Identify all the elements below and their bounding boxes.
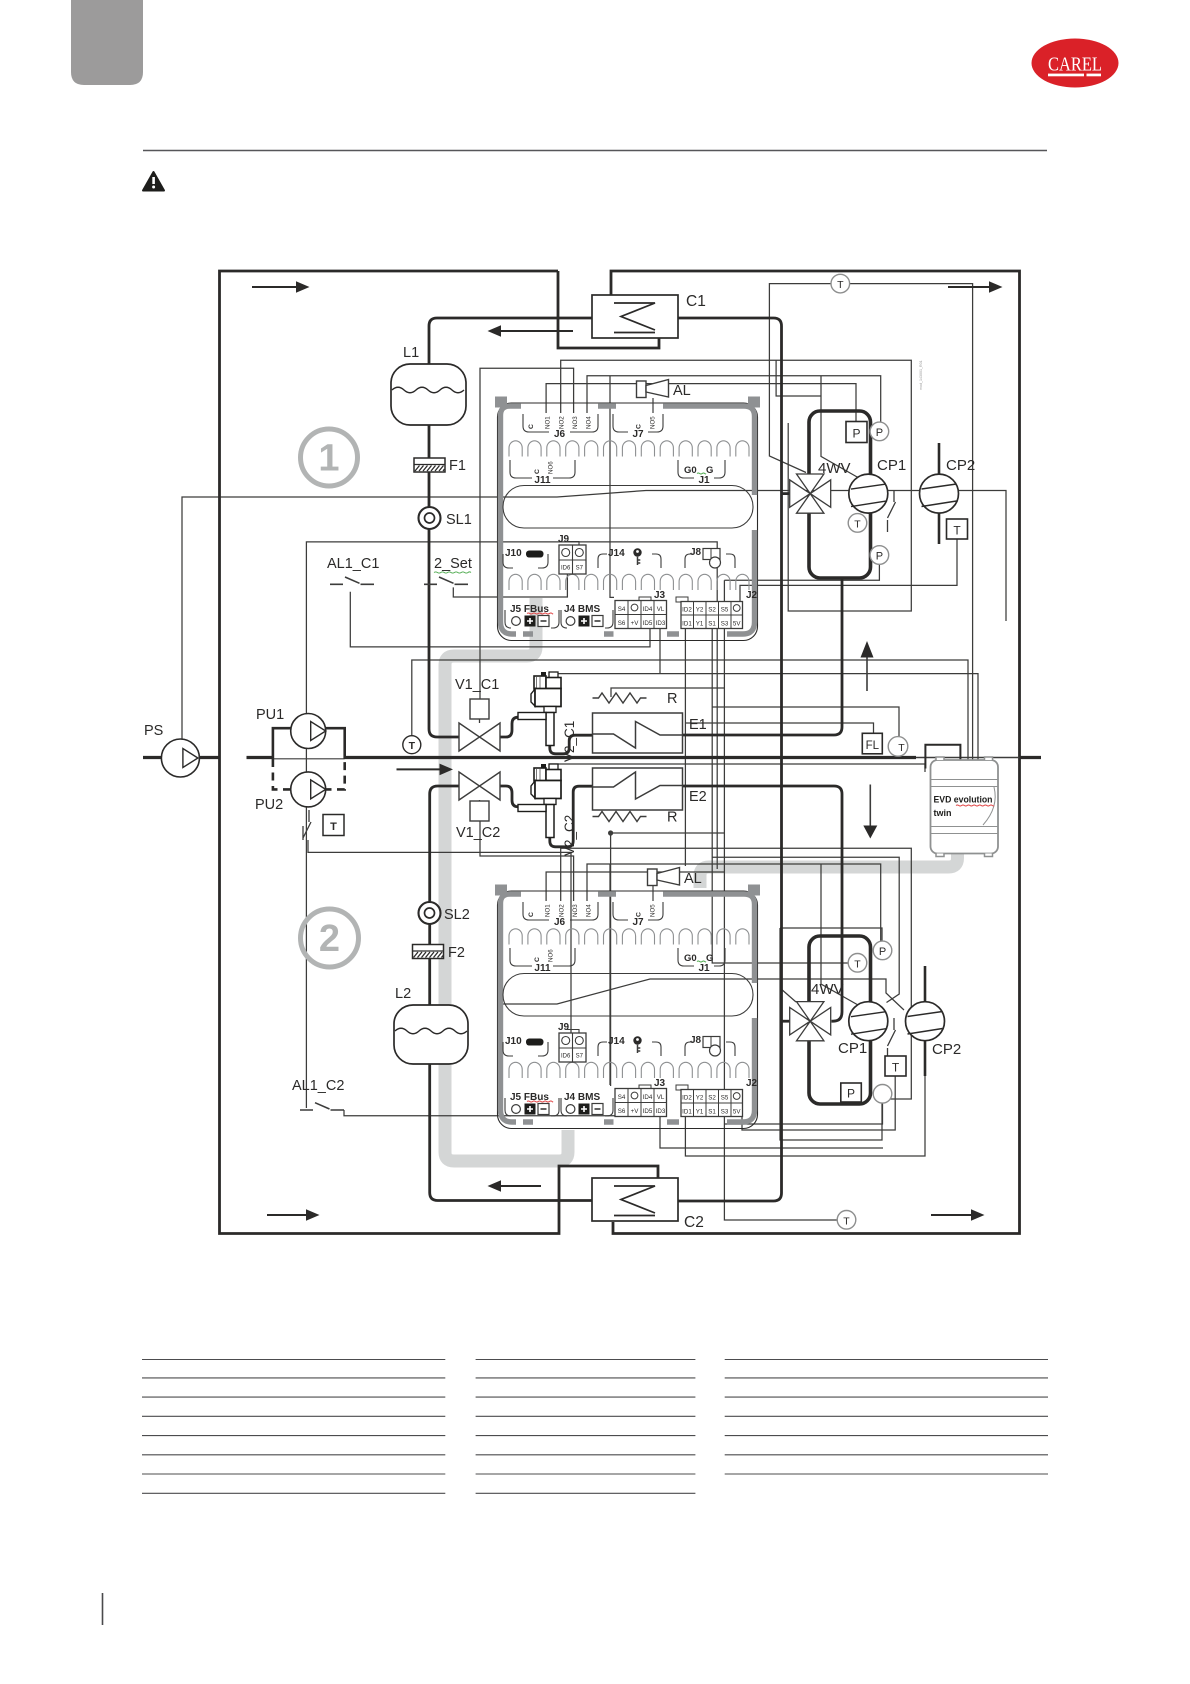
- svg-text:C: C: [528, 424, 535, 429]
- pump bypass standby (dashed): [273, 759, 345, 789]
- valve V1_C1: [459, 723, 500, 751]
- svg-text:T: T: [854, 519, 861, 531]
- svg-text:V2_C1: V2_C1: [562, 721, 577, 762]
- connector J11 board 2: [510, 948, 575, 966]
- flow arrow bottom left: [267, 1214, 306, 1216]
- receiver L2: [394, 1005, 468, 1064]
- wire PS sensor to board 1 / right bus: [182, 491, 1006, 740]
- legend column 1: [142, 1359, 445, 1361]
- heater R circuit 2: [593, 812, 647, 822]
- svg-text:ID5: ID5: [643, 620, 653, 627]
- P low circuit 1: [870, 546, 889, 565]
- T suction circuit 2: [848, 954, 867, 973]
- compressor CP1 circuit 2: [849, 1002, 888, 1041]
- compressor CP2 circuit 2: [924, 966, 927, 1002]
- svg-text:T: T: [330, 821, 337, 833]
- wire relay NO1 circuit 2: [546, 872, 724, 901]
- wire T square 2 to J2 circuit 2: [742, 1076, 895, 1130]
- svg-text:J6: J6: [554, 429, 566, 440]
- connector J1 board 2: [678, 948, 725, 966]
- svg-text:T: T: [854, 958, 861, 970]
- svg-text:P: P: [852, 427, 860, 441]
- V1_C2 solenoid: [479, 800, 481, 803]
- svg-text:NO5: NO5: [650, 904, 657, 917]
- T square circuit 1: [947, 519, 968, 539]
- condenser C1: [592, 295, 678, 338]
- terminal strip upper board 2: [509, 929, 749, 945]
- svg-text:G0: G0: [684, 953, 697, 964]
- pump PU1: [291, 714, 326, 749]
- svg-text:NO5: NO5: [650, 416, 657, 429]
- svg-text:J3: J3: [654, 1078, 666, 1089]
- T square circuit 2: [885, 1056, 906, 1076]
- svg-text:V2_C2: V2_C2: [562, 815, 577, 856]
- wire V2_C2 coil to EVD: [550, 764, 925, 773]
- filter F2: [413, 945, 444, 959]
- filter F1: [414, 458, 445, 472]
- svg-text:G: G: [706, 465, 713, 476]
- wire J2 circuit 2 to CP2: [685, 1073, 925, 1156]
- thermal contact circuit 2: [888, 1018, 896, 1060]
- svg-text:CP2: CP2: [932, 1041, 961, 1058]
- svg-text:Y1: Y1: [696, 621, 704, 628]
- svg-text:+V: +V: [631, 620, 640, 627]
- svg-text:S1: S1: [708, 1109, 716, 1116]
- contact AL1_C2: [300, 1103, 344, 1110]
- svg-text:S4: S4: [618, 606, 626, 613]
- svg-text:ID4: ID4: [643, 1094, 653, 1101]
- svg-text:2: 2: [319, 918, 340, 960]
- warning icon: [143, 172, 164, 191]
- svg-text:NO3: NO3: [572, 416, 579, 429]
- svg-text:J10: J10: [505, 1036, 522, 1047]
- svg-text:S1: S1: [708, 621, 716, 628]
- CAREL logo: [1032, 39, 1119, 88]
- svg-text:ID2: ID2: [682, 1095, 692, 1102]
- pipe tee to 4WV 1: [782, 492, 790, 495]
- terminal strip lower board 1: [509, 574, 749, 590]
- V1_C1 solenoid: [479, 719, 481, 723]
- svg-text:T: T: [898, 742, 905, 754]
- wire P low 2 bus: [724, 1103, 882, 1124]
- wire P low 1 to heater bus: [724, 564, 879, 580]
- wire T square 1 to J2: [740, 539, 957, 602]
- svg-text:L1: L1: [403, 345, 419, 361]
- P switch circuit 2: [841, 1083, 862, 1102]
- P transducer circuit 2: [873, 941, 892, 960]
- controller board 2 outline: [498, 891, 758, 1129]
- svg-text:ID5: ID5: [643, 1108, 653, 1115]
- svg-text:Y2: Y2: [696, 1095, 704, 1102]
- svg-text:J14: J14: [608, 548, 625, 559]
- alarm horn AL board 1: [652, 398, 654, 413]
- connector J6 board 1: [523, 414, 598, 432]
- T sensor water supply: [403, 736, 421, 754]
- svg-text:ID2: ID2: [682, 607, 692, 614]
- legend column 3: [725, 1359, 1048, 1361]
- svg-text:CP2: CP2: [946, 457, 975, 474]
- svg-text:ID4: ID4: [643, 606, 653, 613]
- wire J3 circuit 1 stub: [659, 629, 661, 674]
- svg-text:F2: F2: [448, 945, 465, 961]
- pump PS: [161, 739, 199, 777]
- flow arrow top right: [948, 286, 989, 288]
- P low circuit 2: [873, 1085, 892, 1104]
- display slot board 1: [503, 486, 753, 529]
- svg-text:T: T: [953, 524, 961, 538]
- svg-text:ID6: ID6: [561, 1054, 571, 1060]
- wire relay NO4 to P transducer 2: [587, 864, 881, 941]
- svg-text:T: T: [892, 1061, 900, 1075]
- wire discharge T1 to 4WV: [769, 284, 831, 473]
- T sensor suction: [888, 737, 908, 757]
- svg-text:S5: S5: [721, 607, 729, 614]
- svg-text:NO6: NO6: [548, 949, 555, 962]
- fold mark: [102, 1593, 104, 1625]
- svg-text:4WV: 4WV: [811, 981, 844, 998]
- svg-text:T: T: [843, 1215, 850, 1227]
- valve V1_C2: [459, 772, 500, 800]
- svg-text:ID1: ID1: [682, 1109, 692, 1116]
- svg-text:NO2: NO2: [559, 416, 566, 429]
- contact AL1_C1: [330, 577, 374, 584]
- connector J11 board 1: [510, 460, 575, 478]
- pipe hot gas riser: [678, 318, 782, 1201]
- svg-text:twin: twin: [934, 808, 952, 818]
- flow arrow riser down: [869, 785, 871, 827]
- svg-text:S6: S6: [618, 1108, 626, 1115]
- svg-text:ID3: ID3: [656, 620, 666, 627]
- electronic valve V2_C1: [541, 672, 546, 677]
- svg-text:C: C: [534, 957, 541, 962]
- svg-text:CP1: CP1: [838, 1040, 867, 1057]
- pipe C1 to receiver L1: [429, 318, 592, 364]
- svg-text:V1_C2: V1_C2: [456, 825, 500, 841]
- wire bus stub to CP1: [776, 360, 821, 396]
- pipe liquid line circuit 2: [430, 786, 593, 1201]
- wire relay NO2 loop circuit 2: [561, 848, 912, 1099]
- sight glass SL1: [419, 507, 441, 529]
- svg-text:J8: J8: [690, 547, 702, 558]
- connector J6 board 2: [523, 902, 598, 920]
- svg-text:NO4: NO4: [586, 416, 593, 429]
- svg-text:ID1: ID1: [682, 621, 692, 628]
- 4WV valve circuit 1: [797, 474, 824, 494]
- svg-text:J8: J8: [690, 1035, 702, 1046]
- controller board 2 frame: [501, 894, 755, 1122]
- svg-text:ID6: ID6: [561, 566, 571, 572]
- legend column 2: [476, 1359, 696, 1361]
- wire J2 to FL sensor: [685, 629, 873, 867]
- connector J7 board 1: [613, 414, 663, 432]
- wire supply T sensor to EVD: [412, 660, 968, 760]
- wire bus to CP1 circuit 2: [712, 857, 899, 1002]
- svg-text:NO1: NO1: [545, 416, 552, 429]
- pipe V2_C2 to E2: [550, 786, 594, 847]
- svg-text:P: P: [876, 551, 883, 563]
- wire relay NO3 to V1_C2 solenoid: [480, 821, 574, 901]
- condenser C2: [592, 1178, 678, 1221]
- pipe V2_C1 to E1: [550, 735, 594, 754]
- svg-text:FL: FL: [866, 740, 880, 752]
- svg-text:5V: 5V: [733, 621, 741, 628]
- svg-text:J6: J6: [554, 917, 566, 928]
- wire wire to 4WV circuit 2: [780, 988, 796, 1002]
- compressor CP1 circuit 1: [849, 474, 888, 513]
- svg-text:J2: J2: [746, 1078, 758, 1089]
- svg-text:1: 1: [318, 438, 339, 480]
- main water line: [143, 756, 916, 759]
- circuit number 1: [301, 429, 358, 486]
- wire relay NO3 to V1_C1 solenoid: [480, 368, 574, 699]
- sight glass SL2: [419, 902, 441, 924]
- circuit number 2: [301, 909, 359, 967]
- svg-text:4WV: 4WV: [818, 460, 851, 477]
- wire J3 circuit 2 lower bus: [660, 1117, 883, 1148]
- water loop outer border: [611, 271, 1020, 1234]
- display slot board 2: [503, 974, 753, 1017]
- svg-text:AL: AL: [673, 383, 691, 399]
- svg-text:C2: C2: [684, 1214, 704, 1231]
- wire output to J3 circuit 2: [609, 864, 611, 1085]
- svg-text:R: R: [667, 691, 677, 707]
- wire main line to EVD: [925, 745, 960, 769]
- svg-text:Y2: Y2: [696, 607, 704, 614]
- svg-text:C: C: [534, 469, 541, 474]
- svg-text:P: P: [879, 946, 886, 958]
- controller board 1 frame: [501, 406, 755, 634]
- svg-text:J1: J1: [698, 475, 710, 486]
- wire J2 to suction T sensors: [712, 629, 899, 964]
- svg-text:NO1: NO1: [545, 904, 552, 917]
- flow arrow bottom right: [931, 1214, 971, 1216]
- svg-text:J1: J1: [698, 963, 710, 974]
- pipe E1 suction line: [683, 578, 843, 735]
- svg-text:T: T: [409, 740, 416, 752]
- svg-text:J3: J3: [654, 590, 666, 601]
- svg-text:5V: 5V: [733, 1109, 741, 1116]
- pipe E2 suction line: [683, 786, 843, 1021]
- thermal contact circuit 1: [888, 490, 896, 532]
- svg-text:AL1_C1: AL1_C1: [327, 556, 379, 572]
- connector J1 board 1: [678, 460, 725, 478]
- pipe liquid line circuit 1: [429, 425, 459, 737]
- svg-text:J4 BMS: J4 BMS: [564, 1092, 600, 1103]
- svg-text:J9: J9: [558, 534, 570, 545]
- wire return T contact to board 2: [308, 840, 571, 1035]
- EVD evolution twin module: [931, 760, 999, 854]
- svg-text:EVD evolution: EVD evolution: [934, 795, 993, 805]
- svg-text:VL: VL: [657, 1094, 665, 1101]
- flow arrow into C2: [501, 1185, 541, 1187]
- receiver L1: [391, 364, 466, 425]
- wire relay NO2 loop circuit 1: [561, 360, 912, 611]
- evaporator E1: [593, 713, 683, 753]
- svg-text:PS: PS: [144, 723, 163, 739]
- pump PU2: [291, 772, 326, 807]
- svg-text:NO4: NO4: [586, 904, 593, 917]
- flow arrow riser up: [866, 657, 868, 691]
- FL flow switch: [862, 733, 882, 754]
- junction R2: [608, 830, 613, 835]
- svg-text:S2: S2: [708, 607, 716, 614]
- wire wire to CP1 circuit 2: [821, 864, 858, 1005]
- svg-text:S3: S3: [721, 621, 729, 628]
- svg-text:L2: L2: [395, 986, 411, 1002]
- svg-text:AL: AL: [684, 871, 702, 887]
- svg-text:C: C: [636, 424, 643, 429]
- svg-text:J2: J2: [746, 590, 758, 601]
- evaporator E2: [593, 768, 683, 810]
- svg-text:R: R: [667, 810, 677, 826]
- svg-text:S6: S6: [618, 620, 626, 627]
- svg-text:C: C: [528, 912, 535, 917]
- svg-text:J14: J14: [608, 1036, 625, 1047]
- svg-text:CP1: CP1: [877, 457, 906, 474]
- wire AL1_C2 contact to J3 circuit 2: [344, 1110, 660, 1117]
- compressor CP2 circuit 1: [938, 443, 941, 475]
- P transducer circuit 1: [870, 422, 889, 441]
- 4WV valve circuit 2: [797, 1002, 824, 1022]
- wire discharge T1 to EVD: [850, 284, 973, 760]
- compressor loop circuit 2: [809, 936, 871, 1104]
- svg-text:Y1: Y1: [696, 1109, 704, 1116]
- wire alarm loop between circuits: [306, 542, 717, 1108]
- svg-text:ID3: ID3: [656, 1108, 666, 1115]
- svg-text:S3: S3: [721, 1109, 729, 1116]
- electronic valve V2_C2: [541, 764, 546, 769]
- pump bypass duty: [273, 728, 345, 759]
- controller board 1 outline: [498, 403, 758, 641]
- return water T contact: [303, 810, 311, 840]
- svg-text:+V: +V: [631, 1108, 640, 1115]
- T sensor condenser outlet circuit 2: [837, 1211, 856, 1230]
- svg-text:V1_C1: V1_C1: [455, 677, 499, 693]
- terminal strip upper board 1: [509, 441, 749, 457]
- svg-text:PU2: PU2: [255, 797, 283, 813]
- svg-text:P: P: [847, 1087, 855, 1101]
- wire relay NO4 to P transducer 1: [587, 376, 881, 422]
- svg-text:mod_143001_R01: mod_143001_R01: [919, 360, 923, 390]
- compressor loop circuit 1: [809, 411, 871, 578]
- svg-text:E1: E1: [689, 717, 707, 733]
- wire long bus to C2 temperature sensor: [724, 580, 838, 1220]
- contact 2_Set: [424, 577, 468, 584]
- flow arrow into C1: [501, 330, 573, 332]
- svg-text:F1: F1: [449, 458, 466, 474]
- harness highlight right: [700, 851, 958, 888]
- svg-text:G: G: [706, 953, 713, 964]
- wire V2_C1 coil to EVD: [550, 674, 978, 760]
- heater R circuit 1: [593, 693, 647, 703]
- svg-text:J11: J11: [534, 963, 551, 974]
- svg-text:2_Set: 2_Set: [434, 556, 472, 572]
- pipe tee to 4WV 2: [782, 1020, 790, 1023]
- svg-text:J11: J11: [534, 475, 551, 486]
- svg-text:SL1: SL1: [446, 512, 472, 528]
- svg-text:CAREL: CAREL: [1048, 54, 1102, 76]
- svg-text:E2: E2: [689, 789, 707, 805]
- wire R1 bracket: [611, 688, 725, 697]
- svg-text:S4: S4: [618, 1094, 626, 1101]
- wire bus to CP2 circuit 2: [498, 979, 905, 1010]
- svg-text:S2: S2: [708, 1095, 716, 1102]
- harness highlight left: [445, 598, 568, 1161]
- svg-text:J7: J7: [632, 429, 644, 440]
- svg-text:NO3: NO3: [572, 904, 579, 917]
- header rule: [143, 150, 1047, 152]
- svg-text:VL: VL: [657, 606, 665, 613]
- wire AL1_C1 contact to J3: [350, 592, 650, 647]
- svg-text:SL2: SL2: [444, 907, 470, 923]
- T suction circuit 1: [848, 514, 867, 533]
- svg-text:S5: S5: [721, 1095, 729, 1102]
- svg-text:J4 BMS: J4 BMS: [564, 604, 600, 615]
- P switch circuit 1: [846, 422, 867, 443]
- svg-text:T: T: [837, 279, 844, 291]
- T sensor discharge circuit 1: [831, 274, 850, 293]
- svg-text:S7: S7: [576, 566, 584, 572]
- wire wire to CP1 top: [821, 376, 858, 478]
- svg-text:C: C: [636, 912, 643, 917]
- svg-text:C1: C1: [686, 293, 706, 310]
- svg-text:J7: J7: [632, 917, 644, 928]
- svg-text:P: P: [876, 427, 883, 439]
- page tab: [71, 0, 143, 85]
- flow arrow supply: [397, 768, 440, 770]
- svg-text:G0: G0: [684, 465, 697, 476]
- svg-text:J9: J9: [558, 1022, 570, 1033]
- svg-text:S7: S7: [576, 1054, 584, 1060]
- terminal strip lower board 2: [509, 1062, 749, 1078]
- pipe V1_C1 to V2_C1: [500, 717, 538, 737]
- pipe V1_C2 to V2_C2: [500, 786, 538, 807]
- wire relay NO1 to P switch 1: [546, 384, 856, 422]
- alarm horn AL board 2: [652, 886, 654, 901]
- svg-text:NO2: NO2: [559, 904, 566, 917]
- svg-text:J10: J10: [505, 548, 522, 559]
- flow arrow top left: [252, 286, 296, 288]
- wire R2 node bus: [611, 833, 725, 1086]
- svg-text:PU1: PU1: [256, 707, 284, 723]
- wire 2_Set contact to J9: [453, 575, 567, 598]
- wire output to J3 circuit 1: [610, 376, 614, 598]
- connector J7 board 2: [613, 902, 663, 920]
- svg-text:NO6: NO6: [548, 461, 555, 474]
- svg-text:AL1_C2: AL1_C2: [292, 1078, 344, 1094]
- wire sensor loop circuit 2: [780, 928, 882, 1140]
